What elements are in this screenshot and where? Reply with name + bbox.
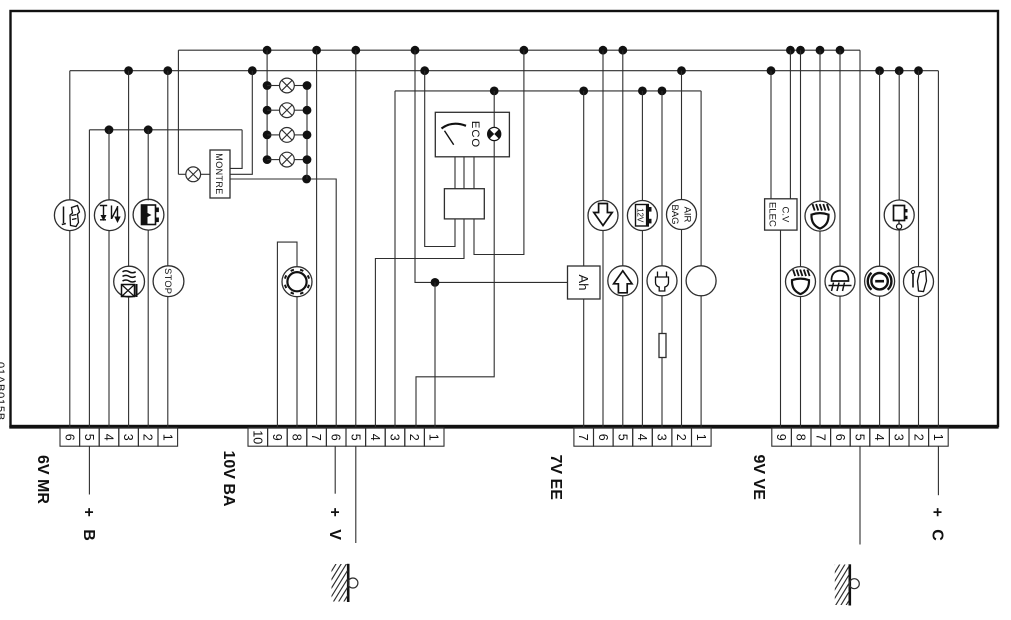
junction on H2 <box>677 66 686 75</box>
svg-text:5: 5 <box>853 434 867 441</box>
lamp U14 fog-lamp symbol <box>825 266 855 296</box>
wire bus H2 (second feed) <box>70 70 939 72</box>
symbol down block-arrow <box>594 204 612 226</box>
drawing number 01AB015B <box>0 362 6 421</box>
box ECO gauge <box>435 112 509 157</box>
wire pin5 6V to +B <box>88 446 90 494</box>
label +B <box>80 508 97 545</box>
wire H3-end jog to MONTRE right top <box>230 130 242 169</box>
svg-text:4: 4 <box>102 434 116 441</box>
lamp U16 door-lock symbol <box>884 200 914 230</box>
wire H1 junction down to H7 corner <box>415 50 435 282</box>
junction on H2 <box>767 66 776 75</box>
wire ECO lead c <box>473 157 475 189</box>
lamp U1 circle (door ajar) <box>54 200 85 231</box>
wire lamp ladder right bus <box>306 86 308 180</box>
svg-text:1: 1 <box>694 434 708 441</box>
junction on H1 <box>786 46 795 55</box>
wire H3-start down to pin5 6V (+B feed) <box>88 130 90 427</box>
svg-text:9: 9 <box>270 434 284 441</box>
svg-text:3: 3 <box>388 434 402 441</box>
connector 9V VE shell + pin numbers <box>772 428 792 446</box>
wire H4 junction to lamp U8 (12V battery) <box>641 91 643 201</box>
lamp U4 circle (heated rear window) <box>114 266 145 297</box>
symbol up block-arrow <box>614 271 632 293</box>
wire H2 junction down to lamp U4 (defrost) <box>128 71 130 267</box>
wire lamp U1 to pin6 6V <box>69 230 71 427</box>
junction on H1 <box>263 46 272 55</box>
junction on H3 <box>144 125 153 134</box>
wire H2-end down to pin1 9V (+C feed) <box>937 71 939 427</box>
lamp L6 inside ECO (half-filled) <box>488 127 501 140</box>
ground symbol (right) <box>808 562 878 608</box>
label STOP <box>163 268 173 294</box>
lamp L5 (montre illumination) <box>186 167 201 182</box>
junction on H1 <box>312 46 321 55</box>
svg-text:01AB015B: 01AB015B <box>0 362 6 421</box>
svg-text:6: 6 <box>833 434 847 441</box>
wire gauge G1 to pin8 10V <box>296 297 298 427</box>
svg-text:ELEC: ELEC <box>767 202 778 227</box>
svg-text:5: 5 <box>82 434 96 441</box>
wire H7 to Ah meter <box>435 281 568 283</box>
svg-text:+ C: + C <box>928 508 945 545</box>
wire lamp U16 to pin3 9V <box>898 230 900 427</box>
svg-text:ECO: ECO <box>469 121 481 148</box>
wire lamp U8 to pin4 7V <box>641 231 643 428</box>
wire bus H3 (left branch) <box>89 129 242 131</box>
lamp U12 dipped-beam symbol <box>805 201 835 231</box>
wire pin9 10V loop to gauge G1 top <box>277 242 297 427</box>
lamp U11 circle (no symbol) <box>686 266 716 296</box>
svg-text:8: 8 <box>290 434 304 441</box>
junction on H2 <box>420 66 429 75</box>
svg-text:7: 7 <box>309 434 323 441</box>
wire lamp ladder left bus <box>266 50 268 159</box>
connector 10V BA shell + pin numbers <box>248 428 268 446</box>
wire lamp U10 to pin2 7V <box>681 230 683 428</box>
svg-text:7: 7 <box>813 434 827 441</box>
wire H4-start down to pin3 10V <box>394 91 396 427</box>
lamp U3 circle (battery) <box>133 199 164 230</box>
lamp U9 circle <box>647 266 677 296</box>
box MONTRE (clock) <box>210 150 230 198</box>
junction on H1 <box>520 46 529 55</box>
junction on H1 <box>351 46 360 55</box>
svg-text:9V VE: 9V VE <box>750 455 767 501</box>
junction on H2 <box>875 66 884 75</box>
wire H1 junction to lamp U6 (down arrow) <box>602 50 604 200</box>
symbol level arrows <box>100 206 121 224</box>
svg-text:10: 10 <box>250 430 264 444</box>
lamp U8 circle <box>627 201 657 231</box>
svg-text:5: 5 <box>348 434 362 441</box>
label ECO <box>469 121 481 148</box>
symbol 12V battery box <box>635 205 651 227</box>
label +C <box>928 508 945 545</box>
label connector 7V EE <box>547 455 564 501</box>
wire H1 junction to pin7 10V <box>316 50 318 427</box>
svg-text:5: 5 <box>615 434 629 441</box>
wire lamp U13 to pin8 9V <box>800 297 802 427</box>
wire lamp L5 left lead <box>178 173 185 175</box>
svg-text:3: 3 <box>892 434 906 441</box>
wire H4 junction to lamp U9 (plug) <box>661 91 663 266</box>
junction on H1 <box>816 46 825 55</box>
wire H1 junction to lamp U14 (fog) <box>839 50 841 266</box>
svg-text:1: 1 <box>160 434 174 441</box>
junction on H2 <box>914 66 923 75</box>
lamp L2 (panel illumination) with end junctions <box>263 103 312 118</box>
wire H3 junction down to lamp U3 <box>147 130 149 201</box>
svg-text:4: 4 <box>635 434 649 441</box>
wire lamp U17 to pin2 9V <box>918 297 920 427</box>
wire H4-end down to lamp U11 (spare) <box>700 91 702 266</box>
svg-text:STOP: STOP <box>163 268 173 294</box>
wire C.V ELEC to pin9 9V <box>780 230 782 427</box>
junction on H2 <box>895 66 904 75</box>
svg-text:10V BA: 10V BA <box>220 451 237 507</box>
junction on H4 <box>638 87 647 96</box>
ECO gauge needle <box>442 124 467 129</box>
wire ECO lead a <box>454 157 456 189</box>
junction on H4 <box>658 87 667 96</box>
wire lamp U9 to fuse F1 <box>661 296 663 334</box>
wire H2 junction to lamp U16 (door lock) <box>898 71 900 200</box>
svg-text:4: 4 <box>368 434 382 441</box>
svg-text:C.V: C.V <box>780 206 791 223</box>
wire H4 junction through ECO lamp <box>493 91 495 128</box>
svg-text:3: 3 <box>121 434 135 441</box>
connector 7V EE shell + pin numbers <box>574 428 594 446</box>
svg-text:6: 6 <box>596 434 610 441</box>
svg-text:7V EE: 7V EE <box>547 455 564 501</box>
junction on H1 <box>618 46 627 55</box>
label BAG <box>669 204 680 224</box>
box ECO resistor unit <box>444 189 484 219</box>
label AIR <box>682 207 693 223</box>
wire H2-end down to lamp U1 <box>69 71 71 201</box>
svg-text:+ V: + V <box>326 508 343 544</box>
svg-text:8: 8 <box>794 434 808 441</box>
wire lamp U14 to pin6 9V <box>839 296 841 427</box>
box C.V ELEC <box>765 199 797 230</box>
label Ah <box>576 275 591 291</box>
label connector 9V VE <box>750 455 767 501</box>
lamp U5 circle STOP <box>153 266 184 297</box>
label C.V <box>780 206 791 223</box>
lamp U17 choke symbol <box>904 267 934 297</box>
wire H2 junction to C.V ELEC top a <box>770 71 772 199</box>
svg-text:1: 1 <box>931 434 945 441</box>
wire lamp U15 to pin4 9V <box>879 296 881 427</box>
junction on H2 <box>124 66 133 75</box>
wire lamp U2 to pin4 6V <box>108 230 110 427</box>
wire lamp U12 to pin7 9V <box>819 231 821 427</box>
junction on H7 <box>431 278 440 287</box>
connector 6V MR shell + pin numbers <box>60 428 80 446</box>
lamp U15 brake symbol <box>865 266 895 296</box>
label +V <box>326 508 343 544</box>
lamp U10 circle AIR BAG <box>667 200 697 230</box>
wire H2 junction jog to MONTRE right mid <box>230 71 252 175</box>
svg-text:1: 1 <box>427 434 441 441</box>
label MONTRE <box>214 153 224 194</box>
wire lamp L5 to MONTRE box <box>201 173 210 175</box>
svg-text:AIR: AIR <box>682 207 693 223</box>
symbol plug <box>655 272 668 292</box>
wire pin5 9V to ground G2 <box>859 446 861 544</box>
wire MONTRE right to pin6 10V (via H5) <box>230 179 336 427</box>
wire lamp U4 to pin3 6V <box>128 297 130 427</box>
wire H4 junction to Ah meter top <box>583 91 585 266</box>
svg-text:6V MR: 6V MR <box>34 455 51 504</box>
lamp U13 main-beam symbol <box>786 267 816 297</box>
wire H1 junction to pin5 10V <box>355 50 357 427</box>
svg-text:2: 2 <box>141 434 155 441</box>
wire bus H1 (top feed) <box>178 49 860 51</box>
wire H1 junction jog to resistor unit c <box>474 50 524 254</box>
wire H2 junction down to lamp U5 (STOP) <box>167 71 169 267</box>
ground symbol (left) <box>306 562 374 604</box>
junction on H1 <box>836 46 845 55</box>
wire H2 junction to lamp U15 (brake) <box>879 71 881 267</box>
lamp L4 (panel illumination) with end junctions <box>263 152 312 167</box>
wire bus H4 (third feed) <box>395 90 701 92</box>
wire H1 junction to C.V ELEC top b <box>789 50 791 199</box>
junction on H3 <box>105 125 114 134</box>
symbol heated rear window <box>122 271 137 297</box>
svg-text:MONTRE: MONTRE <box>214 153 224 194</box>
wire H7 junction down to pin1 10V <box>434 282 436 427</box>
junction on H2 <box>163 66 172 75</box>
gauge G1 (clock ring) <box>282 267 312 297</box>
svg-text:Ah: Ah <box>576 275 591 291</box>
svg-text:9: 9 <box>774 434 788 441</box>
wire lamp U3 to pin2 6V <box>147 230 149 427</box>
wire H1-end down to pin5 9V (ground run) <box>859 50 861 427</box>
label connector 6V MR <box>34 455 51 504</box>
svg-text:3: 3 <box>655 434 669 441</box>
wire pin6 10V to +V <box>334 446 336 494</box>
svg-text:4: 4 <box>872 434 886 441</box>
svg-text:12V: 12V <box>635 208 644 223</box>
label connector 10V BA <box>220 451 237 507</box>
wire pin1 9V to +C <box>937 446 939 495</box>
junction on H4 <box>579 87 588 96</box>
junction on H1 <box>411 46 420 55</box>
svg-text:BAG: BAG <box>669 204 680 224</box>
symbol door ajar <box>62 206 80 227</box>
svg-text:7: 7 <box>576 434 590 441</box>
wire H1 junction to lamp U12 (dipped beam) <box>819 50 821 201</box>
box Ah meter <box>568 266 601 299</box>
svg-text:2: 2 <box>911 434 925 441</box>
wire H2 junction to lamp U17 (choke) <box>918 71 920 267</box>
lamp L3 (panel illumination) with end junctions <box>263 127 312 142</box>
svg-text:2: 2 <box>407 434 421 441</box>
junction on H1 <box>599 46 608 55</box>
wire pin5 10V to ground G1 <box>355 446 357 543</box>
junction on H4 <box>490 87 499 96</box>
lamp U6 circle <box>588 201 618 231</box>
svg-text:6: 6 <box>62 434 76 441</box>
wire lamp U11 to pin1 7V <box>700 296 702 427</box>
wire H3 junction down to lamp U2 <box>108 130 110 201</box>
wire H2 junction to lamp U10 (air bag) <box>681 71 683 200</box>
symbol battery charge <box>142 205 159 225</box>
wire H2 junction jog to resistor unit a <box>425 71 455 247</box>
lamp L1 (panel illumination) with end junctions <box>263 78 312 93</box>
fuse F1 <box>659 334 666 358</box>
wire lamp U5 to pin1 6V <box>167 296 169 427</box>
wire H1 junction to lamp U7 (up arrow) <box>622 50 624 266</box>
svg-text:+ B: + B <box>80 508 97 545</box>
wire lamp U7 to pin5 7V <box>622 296 624 427</box>
wire ECO lamp down / jog to pin2 10V <box>416 141 494 427</box>
junction on H2 <box>248 66 257 75</box>
wire resistor unit b jog to pin4 10V <box>375 219 464 427</box>
wire fuse F1 to pin3 7V <box>661 358 663 428</box>
junction on H5 <box>302 175 311 184</box>
wire lamp U6 to pin6 7V <box>602 231 604 428</box>
svg-text:2: 2 <box>674 434 688 441</box>
wire H1-start down to lamp L5 <box>177 50 179 174</box>
wire Ah meter to pin7 7V <box>583 299 585 427</box>
lamp U2 circle (levels) <box>94 200 125 231</box>
wire ECO lead b <box>463 157 465 189</box>
label ELEC <box>767 202 778 227</box>
wire H1 junction to lamp U13 (main beam) <box>800 50 802 266</box>
junction on H1 <box>796 46 805 55</box>
svg-text:6: 6 <box>329 434 343 441</box>
lamp U7 circle <box>608 266 638 296</box>
